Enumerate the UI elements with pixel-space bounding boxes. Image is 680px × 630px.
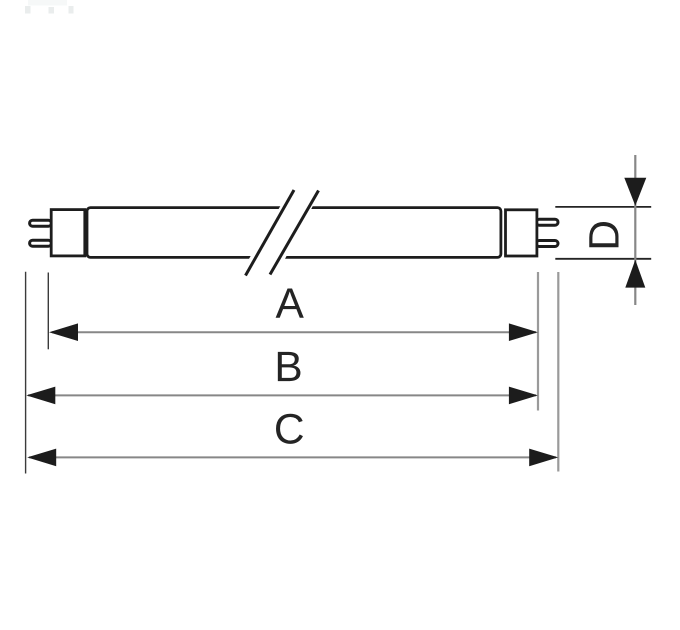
break gap mask	[239, 189, 322, 277]
arrowhead C right	[529, 449, 558, 467]
watermark fragment top-left	[25, 0, 74, 14]
D extension line bottom	[555, 258, 651, 260]
arrowhead A left	[49, 323, 78, 341]
label C	[276, 414, 303, 444]
arrowhead D bottom	[625, 260, 645, 288]
right pin upper	[536, 219, 558, 225]
right pin lower	[536, 241, 558, 247]
dimension line B	[28, 394, 536, 396]
dimension line A	[52, 331, 536, 333]
right end cap	[506, 210, 537, 256]
left end cap	[51, 210, 85, 256]
arrowhead B left	[26, 387, 55, 405]
extension line B C left	[25, 272, 27, 474]
tube glass body	[87, 208, 501, 258]
arrowhead A right	[509, 323, 538, 341]
label A	[276, 288, 304, 317]
label D	[589, 222, 618, 247]
label B	[278, 352, 301, 381]
break line left	[246, 190, 295, 276]
extension line A B right	[537, 272, 539, 411]
left pin lower	[30, 240, 52, 246]
arrowhead B right	[509, 387, 538, 405]
extension line A left	[47, 273, 49, 350]
arrowhead D top	[624, 178, 646, 206]
dimension line D vertical	[634, 155, 636, 305]
dimension line C	[29, 456, 556, 458]
extension line C right	[557, 272, 559, 472]
D extension line top	[555, 206, 651, 208]
arrowhead C left	[27, 449, 56, 467]
break line right	[270, 191, 319, 275]
left pin upper	[30, 220, 52, 226]
